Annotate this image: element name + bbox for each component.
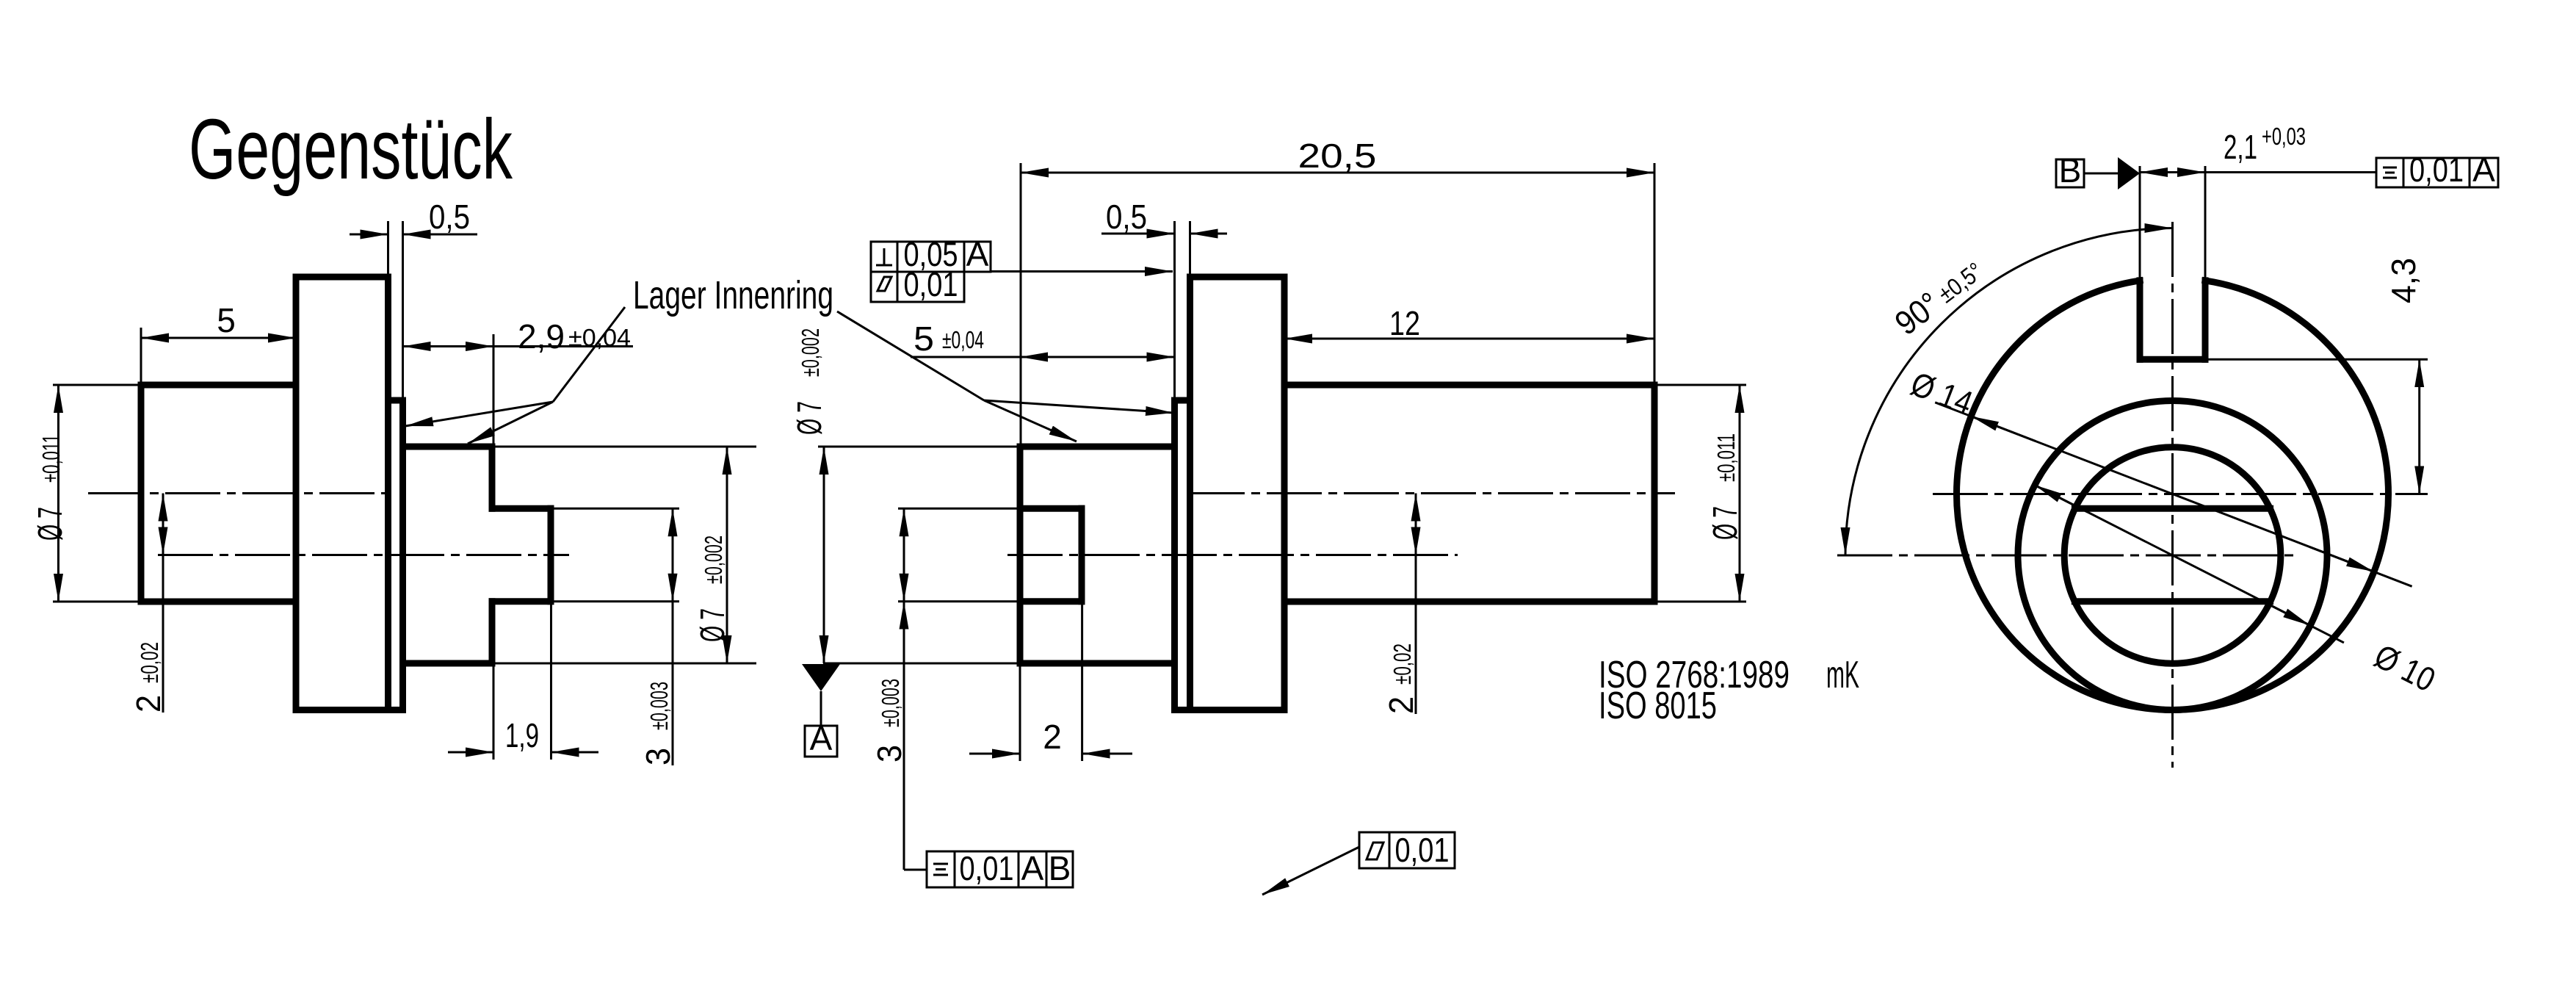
svg-text:Gegenstück: Gegenstück	[189, 101, 513, 197]
svg-text:±0,011: ±0,011	[1712, 433, 1740, 482]
svg-text:0,5: 0,5	[429, 198, 470, 236]
svg-text:±0,003: ±0,003	[645, 682, 673, 730]
svg-text:0,01: 0,01	[904, 265, 958, 303]
svg-text:±0,02: ±0,02	[1389, 643, 1416, 685]
svg-text:±0,002: ±0,002	[700, 535, 727, 584]
svg-text:±0,04: ±0,04	[568, 324, 631, 351]
svg-text:±0,011: ±0,011	[37, 434, 65, 483]
svg-text:mK: mK	[1826, 654, 1859, 696]
svg-text:A: A	[1021, 849, 1044, 887]
svg-text:Ø 7: Ø 7	[1706, 506, 1744, 540]
svg-text:Ø 7: Ø 7	[693, 608, 731, 642]
svg-text:Ø 7: Ø 7	[790, 401, 828, 435]
svg-text:0,01: 0,01	[2409, 151, 2464, 189]
svg-text:A: A	[966, 235, 989, 273]
svg-text:2: 2	[129, 695, 167, 713]
svg-text:4,3: 4,3	[2384, 258, 2423, 303]
svg-text:2,9: 2,9	[518, 317, 565, 356]
svg-text:2: 2	[1043, 718, 1062, 756]
svg-text:A: A	[2472, 151, 2495, 189]
svg-text:A: A	[810, 719, 833, 757]
svg-text:3: 3	[870, 745, 908, 762]
svg-text:2,1: 2,1	[2224, 128, 2257, 166]
svg-text:Lager Innenring: Lager Innenring	[633, 273, 833, 317]
svg-text:±0,003: ±0,003	[877, 679, 904, 727]
svg-text:0,01: 0,01	[1395, 831, 1450, 869]
svg-text:5: 5	[913, 320, 934, 358]
svg-text:20,5: 20,5	[1298, 137, 1377, 175]
svg-text:±0,04: ±0,04	[942, 326, 984, 353]
svg-text:Ø 7: Ø 7	[31, 507, 69, 541]
svg-text:5: 5	[217, 301, 236, 339]
svg-text:±0,02: ±0,02	[136, 642, 163, 683]
svg-text:0,01: 0,01	[960, 849, 1014, 887]
svg-text:±0,002: ±0,002	[797, 328, 824, 377]
svg-text:B: B	[2059, 151, 2082, 190]
svg-text:1,9: 1,9	[505, 716, 539, 754]
svg-text:B: B	[1049, 849, 1071, 887]
svg-text:0,5: 0,5	[1106, 198, 1147, 236]
svg-text:3: 3	[639, 748, 677, 765]
svg-text:2: 2	[1382, 696, 1420, 714]
svg-text:12: 12	[1389, 304, 1420, 342]
svg-text:+0,03: +0,03	[2262, 123, 2306, 150]
svg-text:ISO 8015: ISO 8015	[1599, 685, 1717, 727]
